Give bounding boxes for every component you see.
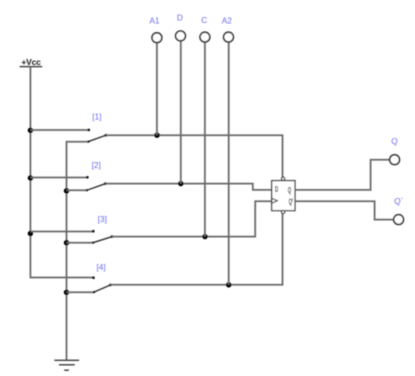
svg-text:[3]: [3] <box>98 214 107 224</box>
switch S2 <box>30 176 106 191</box>
svg-text:A2: A2 <box>222 16 233 26</box>
switch S3 <box>30 230 113 244</box>
node junction gnd-S2 <box>64 188 69 193</box>
ground <box>54 360 79 370</box>
node junction C-S3out <box>202 234 207 239</box>
svg-text:D: D <box>177 13 183 23</box>
wire S4 output to FF clear <box>111 214 283 285</box>
wire FF Q' to terminal Q' <box>295 201 394 219</box>
wire S2 output to FF D input <box>106 184 272 190</box>
power label +Vcc <box>20 57 43 67</box>
svg-text:Q': Q' <box>289 198 294 207</box>
terminal Q' <box>394 196 404 224</box>
node junction A2-S4out <box>226 282 231 287</box>
node junction Vcc-S3 <box>28 231 33 236</box>
node junction D-S2out <box>178 181 183 186</box>
node junction A1-S1out <box>154 133 159 138</box>
wire S1 output to FF preset <box>106 135 283 177</box>
terminal C <box>200 15 210 237</box>
terminal D <box>176 13 186 184</box>
flip-flop U1 <box>272 177 295 213</box>
switch S4 <box>67 276 112 293</box>
terminal A1 <box>149 16 161 136</box>
switch S1 <box>30 129 107 143</box>
wire FF Q to terminal Q <box>295 160 390 190</box>
terminal A2 <box>222 16 234 285</box>
svg-text:Q: Q <box>391 136 398 146</box>
svg-text:[1]: [1] <box>92 111 101 121</box>
svg-text:+Vcc: +Vcc <box>21 57 41 67</box>
wire S3 output to FF clock <box>112 201 272 236</box>
node junction Vcc-S2 <box>28 175 33 180</box>
svg-text:A1: A1 <box>149 16 160 26</box>
node junction gnd-S3 <box>64 240 69 245</box>
wire ground rail <box>67 142 89 361</box>
node junction gnd-S4 <box>64 290 69 295</box>
svg-text:[2]: [2] <box>92 160 101 170</box>
svg-text:Q`: Q` <box>394 196 403 206</box>
svg-text:[4]: [4] <box>96 262 105 272</box>
terminal Q <box>390 136 400 165</box>
svg-text:C: C <box>201 15 207 25</box>
node junction Vcc-S1 <box>28 128 33 133</box>
wire Vcc rail <box>30 67 93 278</box>
svg-text:Q: Q <box>288 187 291 196</box>
svg-text:D: D <box>275 186 278 195</box>
